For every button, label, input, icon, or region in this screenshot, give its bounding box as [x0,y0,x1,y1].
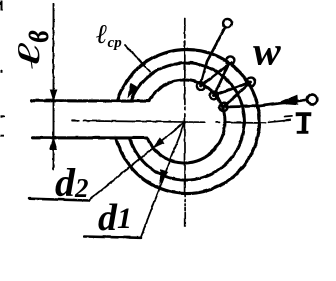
leader line l_cp [125,45,150,72]
svg-text:d1: d1 [98,197,132,239]
winding turn 2 [214,64,229,95]
arrowhead d1 on middle circle [160,170,168,182]
winding turn 4 [223,82,251,107]
winding loop inner 3 [219,102,227,110]
vertical center line (dash-dot axis) [183,18,185,226]
scan mark top-left corner [0,0,3,10]
dimension line l_v (vertical) [52,4,54,170]
winding turn 1 [201,62,232,86]
d1 underline [84,236,141,237]
label I [296,112,312,134]
air gap top edge line [31,99,149,103]
middle circle (mean path l_cp) [129,63,244,180]
arrowhead down at gap top [50,90,56,101]
right terminal circle [307,94,317,104]
scan dot left edge [0,70,2,73]
scan dash left edge lower [0,134,4,136]
d2 underline [29,198,89,200]
svg-text:ℓ: ℓ [12,41,47,69]
current arrow I [278,95,297,104]
arrowhead up at gap bottom [50,138,57,149]
arrowhead d2 on inner circle [153,138,163,147]
winding wire to right terminal [223,99,307,106]
winding loop inner 1 [196,81,204,89]
horizontal center line (dash-dot axis) [72,116,292,123]
svg-text:ℓср: ℓср [96,19,122,51]
top terminal circle [223,18,232,27]
leader line d2 (to center) [89,122,185,201]
winding loop inner 2 [210,91,218,99]
winding turn 3 [214,82,251,96]
scan dash left edge upper [0,115,5,117]
winding wire from top terminal [201,28,224,82]
tangential arrow on middle circle (l_cp) [128,83,138,96]
svg-text:d2: d2 [55,160,89,205]
winding loop outer 2 [246,77,255,86]
air gap bottom edge line [32,136,147,139]
svg-text:в: в [12,30,58,42]
leader line d1 (to center) [141,122,185,237]
svg-text:w: w [253,29,281,73]
outer circle of core (with gap on left) [116,49,259,193]
inner circle of core [147,80,225,163]
winding loop outer 1 [226,56,234,64]
